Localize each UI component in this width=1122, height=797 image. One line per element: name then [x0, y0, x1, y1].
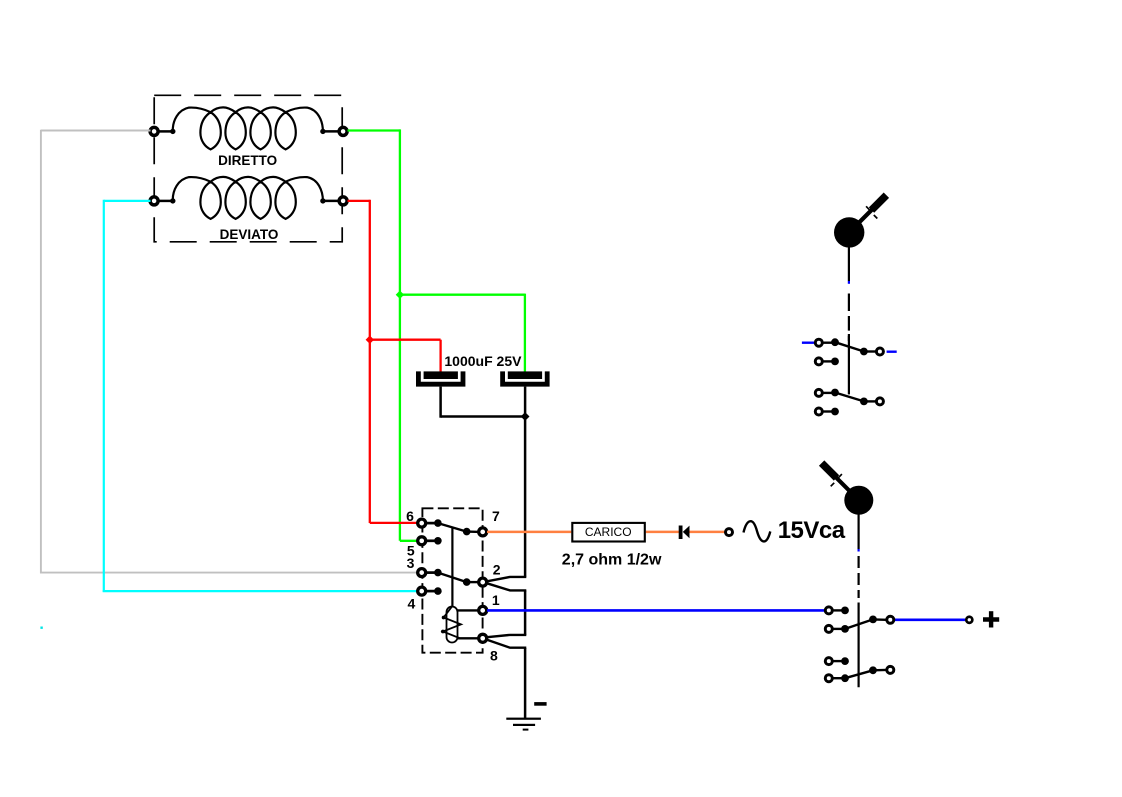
svg-text:2: 2 — [493, 562, 501, 578]
svg-text:DEVIATO: DEVIATO — [220, 227, 279, 242]
svg-text:3: 3 — [407, 555, 415, 571]
svg-text:6: 6 — [406, 508, 414, 524]
svg-text:1: 1 — [492, 592, 500, 608]
svg-text:15Vca: 15Vca — [778, 517, 846, 544]
svg-text:7: 7 — [492, 508, 500, 524]
svg-text:2,7 ohm 1/2w: 2,7 ohm 1/2w — [562, 552, 662, 569]
svg-text:1000uF 25V: 1000uF 25V — [444, 353, 522, 369]
svg-text:DIRETTO: DIRETTO — [218, 153, 277, 168]
svg-text:4: 4 — [408, 596, 416, 612]
svg-text:CARICO: CARICO — [585, 525, 632, 539]
svg-text:8: 8 — [490, 647, 498, 663]
